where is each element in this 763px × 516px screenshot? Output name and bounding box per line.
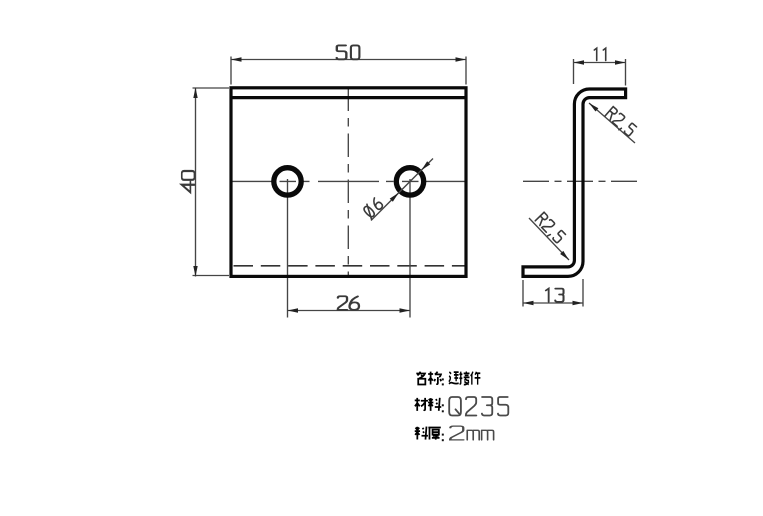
dim 13 arrows (523, 301, 534, 305)
label line 2: cai liao : (415, 398, 428, 411)
label line 3: liao hou : (415, 427, 428, 440)
dim 26 arrows (288, 308, 299, 312)
dim 11 line (574, 62, 626, 64)
dim 40 extension lines (193, 88, 230, 276)
dim 13 line (523, 302, 583, 304)
dim 26 text (338, 296, 359, 310)
label line 1: ming cheng : lian jie jian (416, 372, 425, 385)
dia6 text (362, 197, 384, 219)
dim 26 line (288, 310, 411, 312)
dim 11 text (594, 48, 605, 60)
dia6 leader line (371, 159, 433, 221)
R2.5 top text (604, 107, 637, 138)
plate rectangle (231, 88, 466, 277)
hole left (274, 168, 301, 195)
dim 40 arrows (193, 88, 197, 99)
dim 40 line (195, 88, 197, 277)
dim 40 text (182, 171, 195, 192)
front bottom bend dashed line (234, 265, 467, 267)
front view outline (231, 88, 466, 277)
R2.5 bottom leader (529, 218, 569, 260)
R2.5 bottom text (534, 212, 566, 244)
dim 50 extension lines (231, 57, 466, 85)
dim 13 text (546, 289, 564, 302)
front vertical dashed centerline (347, 88, 349, 278)
value Q235 (449, 397, 508, 440)
dim 50 arrows (231, 57, 242, 61)
R2.5 top arrow (588, 101, 599, 111)
dim 11 arrows (574, 60, 585, 64)
top fold edge line (231, 96, 466, 99)
dim 13 extension lines (523, 279, 583, 307)
side view Z-profile outline (523, 89, 626, 276)
dim 50 text (337, 45, 360, 59)
dim 11 extension lines (574, 59, 626, 86)
R2.5 top leader (589, 103, 635, 143)
dia6 arrows (390, 191, 401, 202)
side view dash-dot centerline (523, 180, 641, 182)
left hole vertical centerline down to dim (287, 179, 289, 318)
dim 50 line (231, 59, 466, 61)
hole right (396, 168, 423, 195)
hole horizontal centerline segments (231, 180, 466, 182)
right hole vertical centerline down to dim (409, 179, 411, 318)
value 2mm (450, 426, 463, 440)
R2.5 bottom arrow (560, 251, 570, 262)
